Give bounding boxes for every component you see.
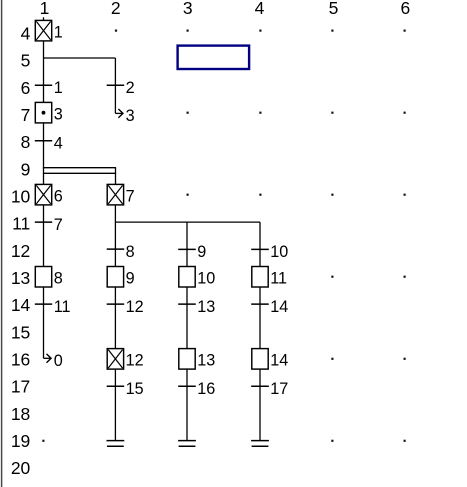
svg-text:9: 9 (197, 243, 206, 261)
parallel branch double line row 9 (col 1 to col 2) (43, 168, 116, 174)
column header labels 1-6 (40, 0, 411, 18)
transition 13 (col 3 row 14) (178, 298, 215, 316)
svg-text:11: 11 (54, 298, 71, 316)
wire: row-5 branch down col 2 to jump arrow through transition 2 (114, 58, 116, 113)
svg-text:5: 5 (21, 51, 31, 71)
wire: step 14 down to end symbol through transition 17 (259, 369, 261, 441)
step 1 (initial step, col 1 row 4) (35, 20, 62, 41)
step 8 (col 1 row 13) (35, 267, 62, 288)
step 13 (col 3 row 16) (179, 349, 215, 370)
svg-text:3: 3 (54, 105, 63, 123)
transition 11 (col 1 row 14) (35, 298, 71, 316)
svg-text:0: 0 (54, 352, 63, 370)
transition 9 (col 3 row 12) (178, 243, 206, 261)
step 12 (initial-type step, col 2 row 16) (107, 349, 143, 370)
svg-text:1: 1 (54, 79, 63, 97)
transition 4 (col 1 row 8) (35, 134, 63, 152)
svg-text:7: 7 (21, 105, 31, 125)
transition 1 (col 1 row 6) (35, 79, 63, 97)
svg-text:1: 1 (54, 23, 63, 41)
svg-text:20: 20 (11, 458, 31, 478)
transition 12 (col 2 row 14) (107, 298, 144, 316)
svg-text:10: 10 (11, 187, 31, 207)
svg-text:11: 11 (270, 269, 287, 287)
step 7 (initial-type step, col 2 row 10) (107, 184, 134, 205)
jump arrow to step 3 (col 2 row 7) (115, 107, 134, 125)
svg-text:19: 19 (11, 431, 30, 451)
transition 14 (col 4 row 14) (251, 298, 288, 316)
wire: OR-branch down col 3 to step 10 through transition 9 (186, 222, 188, 266)
wire: step 3 down to step 6 through transition 4 (43, 123, 45, 184)
OR-branch wire row 11: col 2 to col 4 (115, 221, 260, 223)
transition 15 (col 2 row 17) (107, 380, 144, 398)
step 9 (col 2 row 13) (107, 267, 134, 288)
wire: step 7 down to step 9 through OR-branch and transition 8 (114, 205, 116, 267)
svg-text:2: 2 (111, 0, 121, 18)
wire: step 12 down to end symbol through transition 15 (114, 369, 116, 441)
svg-text:4: 4 (21, 24, 31, 44)
transition 17 (col 4 row 17) (251, 380, 288, 398)
step 3 (active step with token dot, col 1 row 7) (35, 102, 62, 123)
svg-text:4: 4 (54, 134, 63, 152)
svg-text:8: 8 (21, 132, 31, 152)
svg-text:3: 3 (126, 107, 135, 125)
transition 7 (col 1 row 11) (35, 216, 63, 234)
svg-text:16: 16 (197, 380, 215, 398)
svg-text:15: 15 (11, 322, 30, 342)
svg-text:17: 17 (270, 380, 288, 398)
svg-text:3: 3 (183, 0, 193, 18)
end/ground symbol col 2 row 19 (107, 441, 125, 447)
svg-text:11: 11 (12, 214, 30, 234)
step 11 (col 4 row 13) (252, 267, 287, 288)
row header labels 4-20 (11, 24, 31, 479)
wire: step 6 down to step 8 through transition 7 (43, 205, 45, 267)
svg-text:9: 9 (21, 159, 31, 179)
svg-text:13: 13 (197, 298, 215, 316)
transition 2 (col 2 row 6) (107, 79, 135, 97)
step 14 (col 4 row 16) (252, 349, 288, 370)
wire: step 11 down to step 14 through transition 14 (259, 287, 261, 349)
svg-text:10: 10 (197, 269, 215, 287)
end/ground symbol col 4 row 19 (251, 441, 269, 447)
svg-text:7: 7 (54, 216, 63, 234)
left border of drawing area (1, 0, 3, 487)
wire: double line down to step 7 (115, 168, 117, 185)
svg-text:18: 18 (11, 404, 30, 424)
transition 16 (col 3 row 17) (178, 380, 215, 398)
step 10 (col 3 row 13) (179, 267, 215, 288)
svg-text:8: 8 (54, 269, 63, 287)
svg-text:2: 2 (126, 79, 135, 97)
wire: step 10 down to step 13 through transition 13 (186, 287, 188, 349)
step 6 (initial-type step, col 1 row 10) (35, 184, 62, 205)
svg-text:6: 6 (21, 78, 31, 98)
svg-text:13: 13 (197, 352, 215, 370)
svg-text:12: 12 (126, 352, 144, 370)
wire: stub above initial step 1 (43, 17, 45, 20)
end/ground symbol col 3 row 19 (178, 441, 196, 447)
svg-text:6: 6 (401, 0, 411, 18)
wire: OR-branch down col 4 to step 11 through transition 10 (259, 222, 261, 266)
transition 8 (col 2 row 12) (107, 243, 135, 261)
svg-text:14: 14 (270, 298, 288, 316)
jump arrow to step 0 (col 1 row 16) (44, 352, 63, 370)
transition 10 (col 4 row 12) (251, 243, 288, 261)
wire: step 9 down to step 12 through transition 12 (114, 287, 116, 349)
svg-text:15: 15 (126, 380, 144, 398)
svg-text:8: 8 (126, 243, 135, 261)
svg-text:13: 13 (11, 268, 30, 288)
wire: step 1 down to step 3 through row-5 branch and transition 1 (43, 41, 45, 103)
svg-text:9: 9 (126, 269, 135, 287)
svg-text:16: 16 (11, 350, 30, 370)
branch wire row 5: col 1 to col 2 (44, 57, 116, 59)
wire: step 8 down to jump arrow through transition 11 (43, 287, 45, 358)
svg-text:6: 6 (54, 187, 63, 205)
svg-text:4: 4 (255, 0, 265, 18)
svg-text:10: 10 (270, 243, 288, 261)
svg-text:1: 1 (40, 0, 50, 18)
svg-text:12: 12 (11, 241, 30, 261)
svg-text:12: 12 (126, 298, 144, 316)
svg-text:5: 5 (329, 0, 339, 18)
svg-text:14: 14 (270, 352, 288, 370)
svg-text:17: 17 (11, 377, 30, 397)
svg-text:14: 14 (11, 295, 31, 315)
wire: step 13 down to end symbol through transition 16 (186, 369, 188, 441)
selection cursor rectangle (blue) (178, 46, 250, 69)
grid dots (42, 30, 405, 442)
svg-text:7: 7 (126, 187, 135, 205)
